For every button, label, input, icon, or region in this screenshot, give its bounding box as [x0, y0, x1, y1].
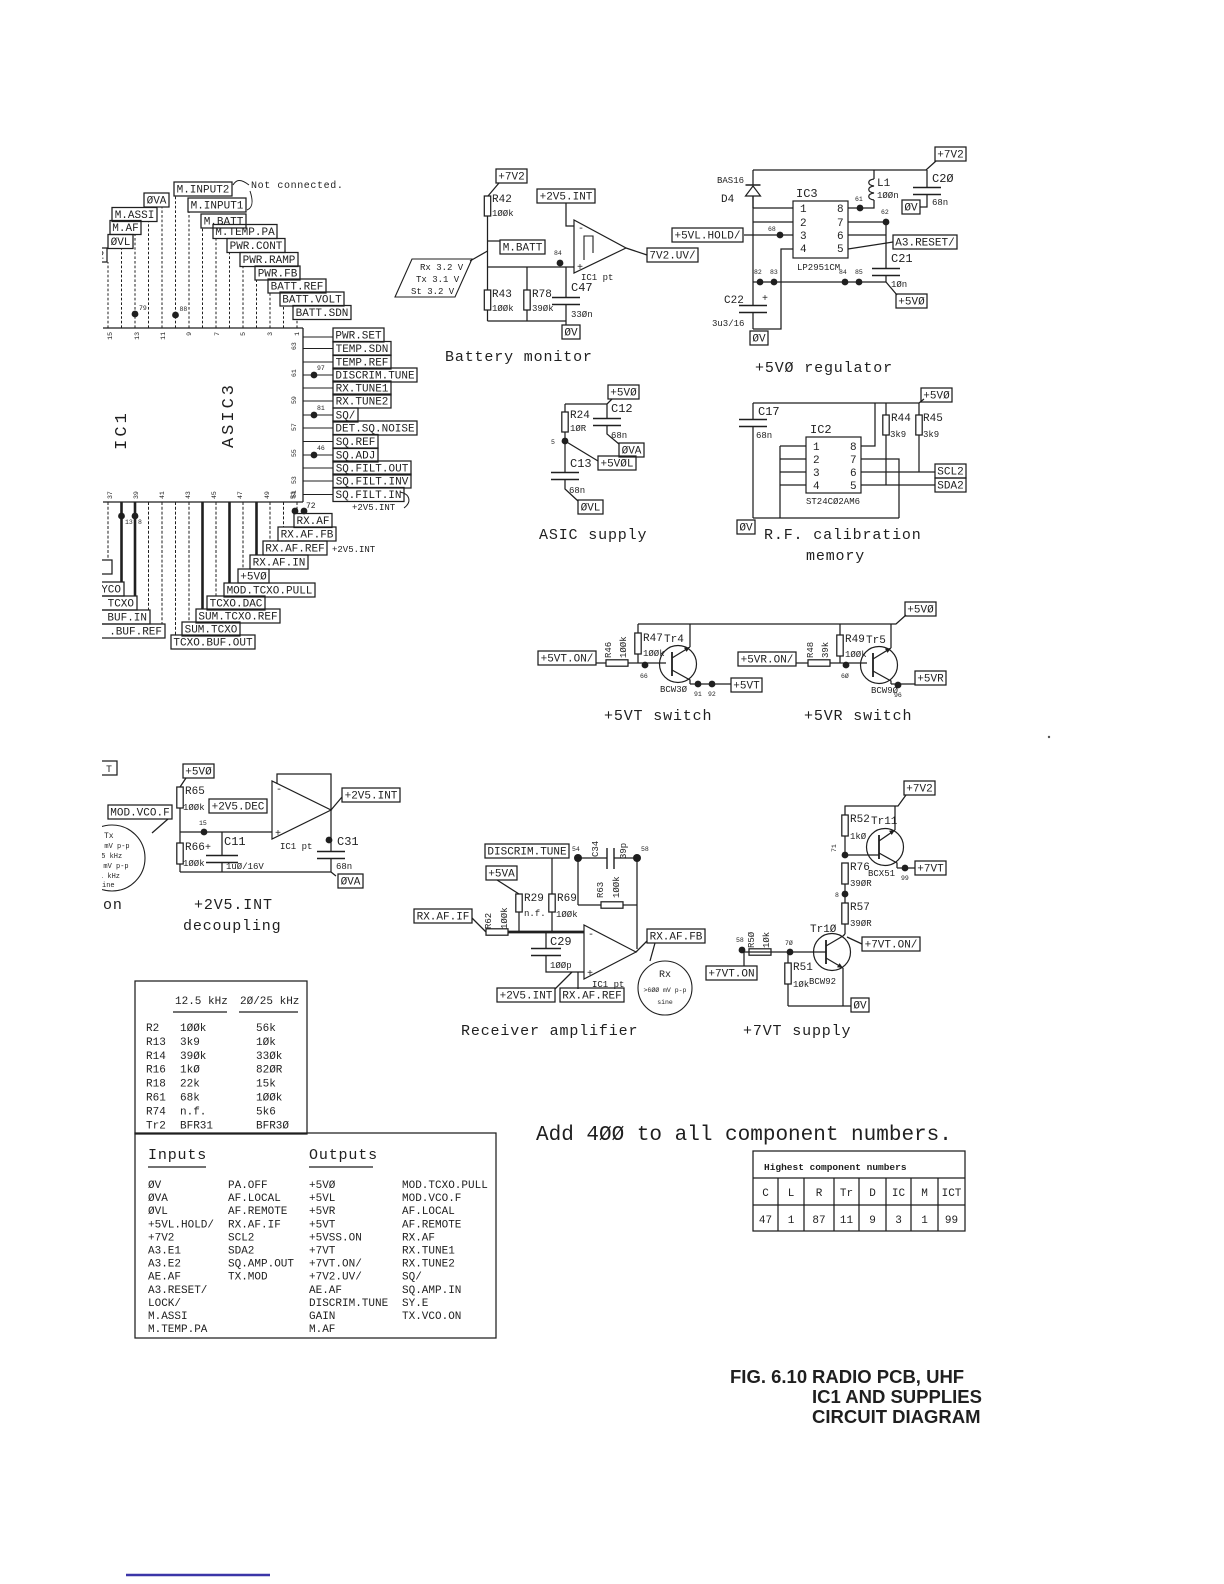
svg-text:A3.E1: A3.E1 [148, 1246, 181, 1258]
node M.INPUT2 label box [174, 182, 232, 197]
svg-text:R51: R51 [793, 962, 813, 974]
svg-text:BFR3Ø: BFR3Ø [256, 1120, 289, 1132]
svg-text:85: 85 [855, 269, 863, 276]
caption +5VR switch [804, 708, 912, 725]
wire output rail to +5V0 [886, 282, 897, 295]
note Not connected [233, 180, 343, 210]
svg-text:58: 58 [641, 846, 649, 853]
svg-text:+5VL.HOLD/: +5VL.HOLD/ [674, 231, 740, 243]
svg-text:39Øk: 39Øk [532, 304, 554, 314]
net 0V label box [737, 520, 755, 535]
wire RX.AF.REF to noninverting [577, 972, 579, 989]
svg-text:+5VT.ON/: +5VT.ON/ [541, 654, 594, 666]
svg-text:3: 3 [267, 332, 274, 336]
svg-text:8: 8 [850, 442, 857, 454]
svg-text:ØV: ØV [564, 328, 578, 340]
svg-text:11: 11 [840, 1215, 854, 1227]
note Rx level circle [638, 961, 692, 1015]
svg-text:SQ.FILT.IN: SQ.FILT.IN [335, 490, 401, 502]
svg-text:82ØR: 82ØR [256, 1065, 283, 1077]
svg-text:84: 84 [839, 269, 847, 276]
page left margin mask [0, 0, 102, 1584]
resistor R50 [747, 931, 772, 955]
svg-text:+: + [275, 829, 281, 840]
junction 8 [835, 891, 848, 899]
net +7VT.ON/ label box [862, 937, 920, 952]
wire top rail +7V2 [753, 161, 936, 170]
svg-text:BATT.SDN: BATT.SDN [296, 308, 349, 320]
wire pin line to PWR.RAMP [242, 267, 244, 329]
resistor R46 [604, 636, 629, 666]
net +2V5.INT label box [537, 189, 595, 204]
svg-text:68: 68 [768, 226, 776, 233]
wire +5V0 to R65 [180, 778, 186, 787]
svg-text:6: 6 [837, 231, 844, 243]
net SDA2 label box [935, 478, 966, 493]
note cut box fragment [95, 761, 117, 776]
svg-text:7V2.UV/: 7V2.UV/ [649, 251, 695, 263]
svg-text:+5VØL: +5VØL [600, 459, 633, 471]
wire IC3 pin1 [753, 207, 793, 209]
svg-text:TX.VCO.ON: TX.VCO.ON [402, 1311, 461, 1323]
svg-text:AF.LOCAL: AF.LOCAL [228, 1193, 281, 1205]
node TCXO.BUF.OUT label box [171, 635, 255, 650]
wire MOD.VCO.F to test circle [152, 819, 168, 833]
svg-text:C12: C12 [611, 402, 633, 416]
note blue footer rule [126, 1574, 270, 1577]
svg-text:RX.TUNE1: RX.TUNE1 [402, 1246, 455, 1258]
svg-text:ØV: ØV [739, 523, 753, 535]
caption +2V5.INT decoupling [183, 897, 282, 935]
node SUM.TCXO.REF label box [196, 609, 280, 624]
table component column M [921, 1188, 928, 1227]
svg-text:8: 8 [835, 892, 839, 899]
wire +5V0 to R24/C12 [607, 399, 612, 418]
net DISCRIM.TUNE label box [485, 844, 569, 859]
node SQ.FILT.IN label box [333, 488, 404, 503]
svg-text:+5VØ regulator: +5VØ regulator [755, 360, 893, 377]
net +2V5.INT label box [497, 988, 555, 1003]
junction 96 [894, 682, 902, 699]
svg-text:D: D [869, 1188, 876, 1200]
IC1 part name ASIC3 [220, 382, 239, 448]
table component column Tr [840, 1188, 854, 1227]
wire RX.AF.FB to circle [650, 943, 655, 961]
wire divider node to comparator + [488, 266, 575, 268]
svg-text:R48: R48 [806, 642, 816, 658]
svg-text:Outputs: Outputs [309, 1147, 378, 1164]
svg-text:68n: 68n [932, 198, 948, 208]
node M.TEMP.PA label box [213, 225, 277, 240]
svg-text:L: L [788, 1188, 795, 1200]
svg-text:ØV: ØV [148, 1180, 162, 1192]
svg-text:3k9: 3k9 [923, 430, 939, 440]
node M.BATT label box [201, 214, 246, 229]
svg-text:3: 3 [813, 468, 820, 480]
caption +7VT supply [743, 1023, 851, 1040]
wire pin7 ground return [861, 459, 899, 518]
junction 79 [132, 305, 147, 317]
wire pin line to PWR.FB [256, 280, 258, 328]
svg-text:1ØØk: 1ØØk [180, 1023, 207, 1035]
wire pin line to PWR.CONT [229, 253, 231, 329]
svg-text:-: - [588, 930, 594, 941]
svg-text:6: 6 [850, 468, 857, 480]
svg-text:-: - [578, 224, 584, 235]
resistor R45 [916, 403, 943, 472]
svg-text:72: 72 [306, 502, 316, 511]
svg-text:C: C [762, 1188, 769, 1200]
wire pin line to TCXO.DAC [215, 502, 217, 596]
wire DISCRIM.TUNE to R69 [551, 858, 553, 894]
svg-text:R24: R24 [570, 410, 590, 422]
svg-text:C2Ø: C2Ø [932, 172, 954, 186]
svg-text:TCXO.BUF.OUT: TCXO.BUF.OUT [173, 638, 253, 650]
node SQ/ label box [333, 408, 358, 423]
resistor R51 [785, 952, 813, 1006]
junction 58 [633, 846, 649, 862]
svg-text:M.INPUT2: M.INPUT2 [177, 185, 230, 197]
svg-text:M.TEMP.PA: M.TEMP.PA [148, 1324, 208, 1336]
svg-text:99: 99 [901, 875, 909, 882]
svg-text:+: + [205, 843, 211, 854]
table kHz row R14 [146, 1051, 283, 1063]
wire IC1 right stub to SQ.FILT.IN [303, 494, 333, 496]
wire to +7VT.ON/ label [847, 937, 862, 944]
wire RX.AF.IF to R62 [472, 918, 486, 932]
svg-text:R13: R13 [146, 1037, 166, 1049]
svg-text:IC1: IC1 [113, 410, 132, 450]
svg-text:57: 57 [291, 423, 298, 431]
svg-text:1: 1 [800, 204, 807, 216]
svg-text:LOCK/: LOCK/ [148, 1298, 181, 1310]
net 7V2.UV/ label box [647, 248, 698, 263]
wire IC1 right stub to SQ/ [303, 414, 333, 416]
svg-text:RX.AF.FB: RX.AF.FB [281, 530, 334, 542]
svg-text:RX.AF.REF: RX.AF.REF [562, 991, 621, 1003]
svg-text:1ØØn: 1ØØn [877, 191, 899, 201]
svg-text:+7V2.UV/: +7V2.UV/ [309, 1272, 362, 1284]
svg-text:R61: R61 [146, 1093, 166, 1105]
table kHz row R18 [146, 1079, 276, 1091]
wire buffer input [180, 831, 272, 833]
node M.INPUT1 label box [188, 198, 246, 213]
junction 84 [554, 250, 563, 266]
svg-text:IC: IC [892, 1188, 906, 1200]
svg-text:SQ.REF: SQ.REF [336, 437, 376, 449]
table component column L [788, 1188, 795, 1227]
net 0VL label box [578, 500, 603, 515]
resistor R24 [562, 410, 590, 441]
wire IC1 right stub to DISCRIM.TUNE [303, 374, 333, 376]
table kHz variants frame [135, 981, 307, 1134]
svg-text:39ØR: 39ØR [850, 919, 872, 929]
svg-text:97: 97 [317, 365, 325, 372]
svg-text:11: 11 [160, 332, 167, 340]
svg-text:1Øn: 1Øn [891, 280, 907, 290]
wire +5VA to R29 [497, 880, 519, 894]
net 0V label box [851, 998, 869, 1013]
wire IC1 right stub to RX.TUNE1 [303, 387, 333, 389]
node M.ASSI label box [112, 208, 157, 223]
svg-text:ASIC3: ASIC3 [220, 382, 239, 448]
svg-text:R.F. calibration: R.F. calibration [764, 527, 922, 544]
junction 58b [736, 937, 745, 953]
node RX.AF.IN label box [250, 555, 308, 570]
wire R57 to Tr10 collector [843, 934, 845, 936]
wire to R46 [596, 662, 606, 664]
svg-text:M: M [921, 1188, 928, 1200]
svg-text:Rx 3.2 V: Rx 3.2 V [420, 263, 464, 273]
net +5V0 label box [905, 602, 936, 617]
svg-text:47: 47 [237, 491, 244, 499]
wire to +7VT.ON [743, 952, 745, 966]
svg-text:1: 1 [294, 332, 301, 336]
svg-text:SQ.FILT.INV: SQ.FILT.INV [336, 477, 409, 489]
wire pin line to BUF.IN [148, 502, 150, 610]
svg-text:2: 2 [813, 455, 820, 467]
svg-text:R74: R74 [146, 1106, 166, 1118]
wire IC1 right stub to TEMP.SDN [303, 348, 333, 350]
svg-text:1ØØk: 1ØØk [619, 636, 629, 658]
svg-text:A3.RESET/: A3.RESET/ [895, 238, 954, 250]
wire IC1 right stub to SQ.REF [303, 441, 333, 443]
svg-text:A3.RESET/: A3.RESET/ [148, 1285, 207, 1297]
svg-text:R57: R57 [850, 902, 870, 914]
svg-text:+7VT: +7VT [917, 864, 944, 876]
wire pin line to RX.AF.FB [283, 502, 285, 527]
svg-text:68k: 68k [180, 1093, 200, 1105]
net +5VT.ON/ label box [538, 651, 596, 666]
wire pin line to RX.AF [296, 502, 298, 514]
junction 62 [881, 209, 889, 225]
junction C31 node [326, 837, 333, 844]
svg-text:+7VT.ON/: +7VT.ON/ [865, 940, 918, 952]
note Add 400 to all component numbers [536, 1124, 952, 1147]
table component column IC [892, 1188, 906, 1227]
svg-text:+7VT.ON/: +7VT.ON/ [309, 1259, 362, 1271]
IC U1 IC1 ASIC3 body [103, 328, 303, 502]
wire IC1 right stub to SQ.FILT.OUT [303, 467, 333, 469]
svg-text:ine: ine [102, 882, 115, 890]
note stray mark [1048, 736, 1050, 738]
svg-text:RX.AF.FB: RX.AF.FB [650, 932, 703, 944]
svg-text:61: 61 [855, 196, 863, 203]
junction 92 [708, 681, 716, 698]
svg-text:49: 49 [264, 491, 271, 499]
svg-text:AE.AF: AE.AF [309, 1285, 342, 1297]
svg-text:C11: C11 [224, 835, 246, 849]
svg-text:Tr4: Tr4 [664, 634, 684, 646]
svg-text:+5VØ: +5VØ [610, 388, 637, 400]
svg-text:SCL2: SCL2 [937, 467, 963, 479]
svg-text:2: 2 [800, 218, 807, 230]
svg-text:4: 4 [813, 481, 820, 493]
svg-text:22k: 22k [180, 1079, 200, 1091]
svg-text:+5VT switch: +5VT switch [604, 708, 712, 725]
wire to R48 [796, 662, 808, 664]
node BATT.VOLT label box [280, 292, 344, 307]
wire pin line to BATT.VOLT [283, 306, 285, 328]
table kHz header 12.5 kHz [173, 996, 228, 1012]
junction 99 [901, 865, 909, 882]
svg-text:RX.AF.REF: RX.AF.REF [265, 544, 324, 556]
svg-text:83: 83 [770, 269, 778, 276]
capacitor C47 [552, 267, 593, 325]
wire SDA2 line [861, 484, 935, 486]
junction 81 on SQ/ [311, 405, 325, 418]
net +5V0 label box [183, 764, 214, 779]
svg-text:IC2: IC2 [810, 423, 832, 437]
node PWR.SET label box [333, 328, 384, 343]
wire IC3 pin6 [848, 234, 886, 236]
svg-text:PA.OFF: PA.OFF [228, 1180, 268, 1192]
svg-text:ØVA: ØVA [147, 196, 167, 208]
node TEMP.SDN label box [333, 342, 391, 357]
svg-text:IC1 pt: IC1 pt [280, 842, 312, 852]
wire battery monitor ground rail [488, 320, 567, 322]
junction 70 [785, 939, 793, 955]
net +2V5.INT text right of RX.AF.REF [332, 545, 376, 555]
wire feedback top left [578, 857, 607, 859]
svg-text:3k9: 3k9 [890, 430, 906, 440]
svg-text:R18: R18 [146, 1079, 166, 1091]
junction 82 [754, 269, 763, 285]
IC U2 IC2 ST24C02AM6 [806, 423, 861, 507]
svg-text:SQ/: SQ/ [402, 1272, 422, 1284]
svg-text:R52: R52 [850, 814, 870, 826]
wire +7V2 to R52 [845, 795, 906, 815]
junction 83 [770, 269, 778, 285]
svg-text:1: 1 [788, 1215, 795, 1227]
wire parallelogram to node [470, 251, 488, 261]
node RX.AF.REF label box [263, 541, 327, 556]
svg-text:C22: C22 [724, 295, 744, 307]
svg-text:84: 84 [554, 250, 562, 257]
junction 68 [768, 226, 783, 238]
net +5V0 label box [896, 294, 927, 309]
net RX.AF.IF label box [414, 909, 472, 924]
wire inverting input thick [508, 931, 584, 934]
svg-text:D4: D4 [721, 194, 735, 206]
svg-text:+5VR switch: +5VR switch [804, 708, 912, 725]
svg-text:+5VA: +5VA [488, 869, 515, 881]
svg-text:SY.E: SY.E [402, 1298, 429, 1310]
net +5V0L label box [598, 456, 636, 471]
svg-text:SDA2: SDA2 [937, 481, 963, 493]
wire buffer feedback loop [277, 774, 331, 810]
svg-text:47: 47 [759, 1215, 772, 1227]
resistor R44 [883, 403, 911, 485]
wire pin line to M.INPUT1 [188, 212, 190, 328]
wire IC3 pin8 to L1 [848, 200, 874, 208]
junction 84b [839, 269, 848, 285]
svg-text:Add 4ØØ to all component numbe: Add 4ØØ to all component numbers. [536, 1124, 952, 1147]
svg-text:+: + [762, 294, 768, 305]
svg-text:DISCRIM.TUNE: DISCRIM.TUNE [309, 1298, 389, 1310]
svg-text:+7VT.ON: +7VT.ON [708, 969, 754, 981]
svg-text:R66: R66 [185, 842, 205, 854]
op-amp IC1 pt buffer [272, 781, 331, 852]
net A3.RESET/ label box [893, 235, 957, 250]
junction 85 [855, 269, 863, 285]
table kHz row R16 [146, 1065, 283, 1077]
svg-text:C34: C34 [591, 841, 601, 857]
wire R42 to divider node [487, 216, 489, 267]
diode D4 BAS16 [717, 170, 761, 208]
svg-text:FIG. 6.10: FIG. 6.10 [730, 1366, 807, 1387]
wire comparator output [626, 248, 647, 255]
table component column R [812, 1188, 825, 1227]
junction pair at pin 51 [292, 508, 308, 515]
wire pin line to .BUF.REF [161, 502, 163, 624]
svg-text:Inputs: Inputs [148, 1147, 207, 1164]
svg-text:CIRCUIT DIAGRAM: CIRCUIT DIAGRAM [812, 1406, 981, 1427]
svg-text:MOD.VCO.F: MOD.VCO.F [402, 1193, 461, 1205]
transistor Q Tr10 BCW92 [809, 924, 851, 1006]
svg-text:1kØ: 1kØ [850, 832, 867, 842]
note Tx deviation test circle [79, 825, 145, 891]
pin 72 number [306, 502, 316, 511]
wire rx output [636, 941, 647, 952]
svg-text:+2V5.INT: +2V5.INT [194, 897, 273, 914]
wire left pin bus [780, 446, 806, 518]
svg-text:R45: R45 [923, 413, 943, 425]
net +7V2 label box [496, 169, 527, 184]
svg-text:R43: R43 [492, 289, 512, 301]
svg-text:MOD.TCXO.PULL: MOD.TCXO.PULL [402, 1180, 488, 1192]
svg-text:87: 87 [812, 1215, 825, 1227]
node BATT.SDN label box [293, 306, 351, 321]
resistor R76 [842, 862, 872, 903]
junction 13 bottom left [118, 513, 133, 526]
svg-text:MOD.VCO.F: MOD.VCO.F [110, 808, 169, 820]
inductor L1 [869, 170, 899, 201]
table kHz row R2 [146, 1023, 276, 1035]
resistor R63 [578, 876, 637, 908]
junction 61 [855, 196, 863, 211]
wire memory top rail [753, 399, 924, 403]
svg-text:62: 62 [881, 209, 889, 216]
svg-text:BATT.VOLT: BATT.VOLT [282, 295, 342, 307]
svg-text:82: 82 [754, 269, 762, 276]
svg-text:6Ø: 6Ø [841, 672, 849, 680]
wire IC3 pin2 [753, 221, 793, 223]
svg-text:TX.MOD: TX.MOD [228, 1272, 268, 1284]
caption +5VT switch [604, 708, 712, 725]
junction ASIC supply node [551, 438, 568, 446]
resistor R62 [484, 907, 510, 935]
svg-text:+7VT: +7VT [309, 1246, 336, 1258]
svg-text:TCXO: TCXO [108, 599, 135, 611]
svg-text:+: + [587, 969, 593, 980]
note figure title FIG 6.10 [730, 1366, 982, 1427]
op-amp IC1 pt comparator [574, 220, 626, 283]
svg-text:1ØØk: 1ØØk [492, 304, 514, 314]
net +7V2 label box [935, 147, 966, 162]
IC1 right pin numbers [291, 342, 298, 498]
junction 66 [640, 662, 648, 680]
wire IC1 right stub to SQ.ADJ [303, 454, 333, 456]
wire IC1 right stub to PWR.SET [303, 336, 333, 338]
table kHz row R74 [146, 1106, 276, 1118]
wire pin line to TCXO.BUF.OUT [175, 502, 177, 635]
wire pin line to RX.AF.IN [255, 502, 258, 555]
node BUF.IN label box [95, 610, 150, 625]
svg-text:>6ØØ mV p-p: >6ØØ mV p-p [644, 986, 687, 994]
wire pin line to ØVL [121, 249, 123, 329]
svg-text:St 3.2 V: St 3.2 V [411, 287, 455, 297]
